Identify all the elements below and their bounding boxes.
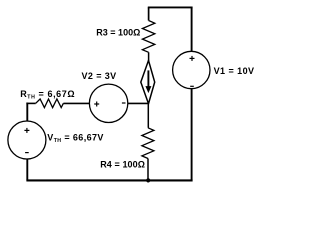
bottom rail wire (26, 179, 192, 181)
wire from R3 bottom to dependent source top (148, 52, 150, 61)
junction node at bottom rail (146, 178, 150, 182)
VTH plus mark (24, 129, 29, 131)
V1 plus mark (190, 57, 195, 59)
wire top-left from R3 top to top rail corner (148, 7, 150, 20)
arrow inside G1 (147, 70, 149, 88)
wire from dependent source bottom to R4 top (node with V2 branch) (147, 103, 149, 127)
V1 minus mark (190, 85, 194, 87)
wire from RTH to V2 plus terminal (63, 102, 89, 104)
V2 minus mark (122, 102, 126, 104)
dependent current source G1 (diamond) (141, 60, 155, 103)
wire from VTH minus terminal down to bottom rail (26, 159, 28, 180)
V2 plus mark (94, 103, 99, 105)
svg-text:V2 = 3V: V2 = 3V (82, 71, 117, 81)
svg-text:V1 = 10V: V1 = 10V (214, 66, 255, 76)
wire from V1 minus terminal down to bottom rail (191, 89, 193, 181)
voltage source V2 (89, 84, 127, 122)
voltage source V1 (173, 51, 210, 88)
resistor R4 (142, 128, 154, 159)
voltage source VTH (8, 121, 46, 159)
wire top rail (148, 6, 193, 8)
wire from V2 minus terminal to center node (128, 102, 149, 104)
svg-text:R4 = 100Ω: R4 = 100Ω (100, 160, 145, 170)
resistor R3 (142, 21, 154, 53)
VTH minus mark (25, 152, 29, 154)
wire from R4 bottom to bottom rail (147, 159, 149, 181)
wire from VTH plus terminal up to left corner (26, 103, 28, 122)
wire left corner horizontal to RTH (26, 102, 35, 104)
resistor RTH (36, 99, 64, 108)
svg-text:R3 = 100Ω: R3 = 100Ω (96, 27, 140, 37)
wire top-right down to V1 plus terminal (191, 7, 193, 51)
